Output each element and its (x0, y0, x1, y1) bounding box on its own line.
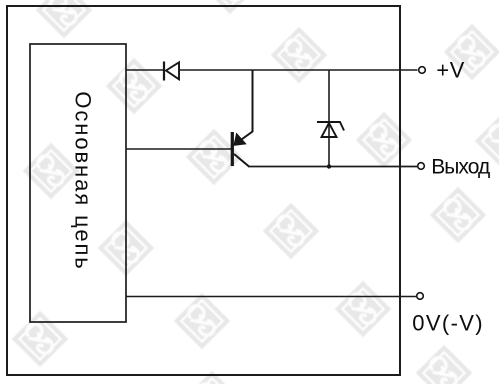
wire: zener branch vertical (328, 70, 330, 167)
outer frame (7, 6, 400, 375)
wire: box to 0V terminal (126, 296, 416, 298)
terminal Выход (418, 163, 425, 170)
svg-text:+V: +V (436, 58, 464, 83)
terminal +V (419, 67, 426, 74)
transistor Q (PNP) (231, 70, 253, 167)
main circuit box (30, 44, 126, 322)
wire: diode to +V terminal (top rail) (179, 69, 418, 71)
terminal 0V(-V) (417, 293, 424, 300)
wire: collector to output terminal (248, 166, 417, 168)
wire: base lead from box to transistor (126, 148, 231, 150)
zener diode VD (317, 122, 344, 137)
svg-text:0V(-V): 0V(-V) (412, 311, 484, 336)
diode D (164, 62, 179, 81)
svg-text:Выход: Выход (431, 155, 490, 178)
svg-text:Основная цепь: Основная цепь (71, 91, 96, 270)
junction dot at zener/output (327, 164, 331, 168)
wire: box to diode (+V rail left) (126, 69, 164, 71)
